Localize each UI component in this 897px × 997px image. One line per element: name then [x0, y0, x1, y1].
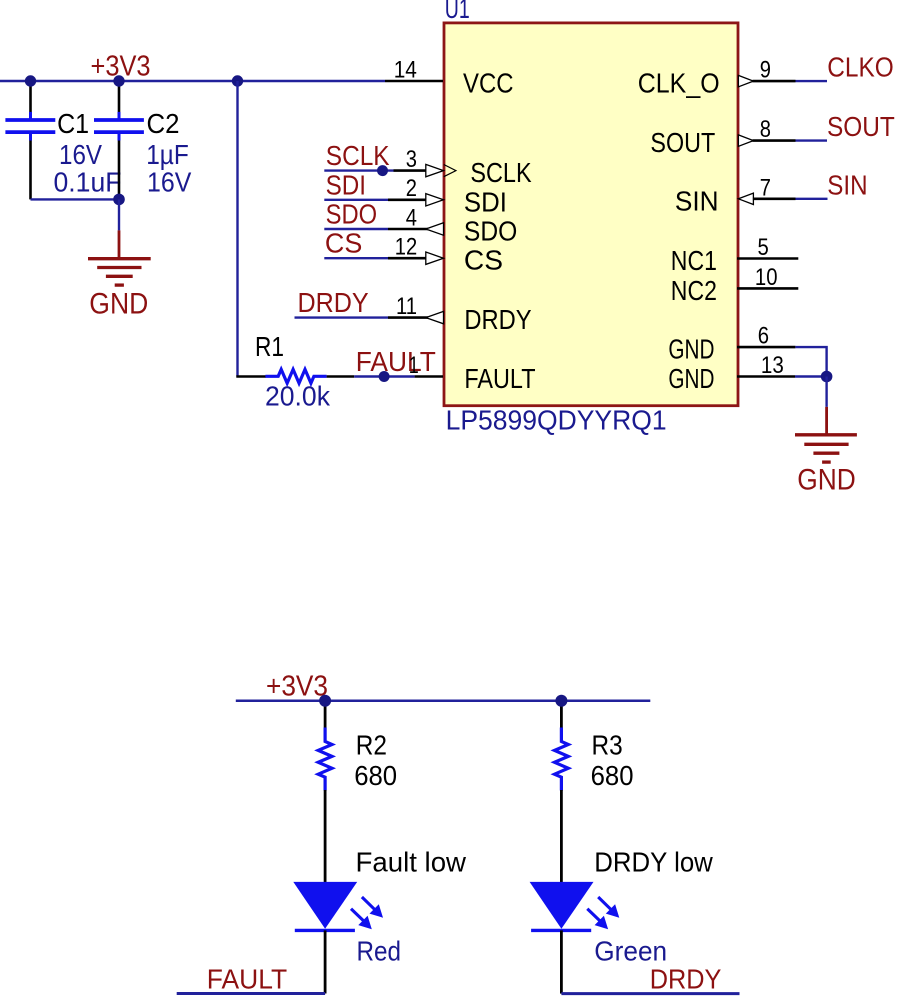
wire GND 13 to junction: [795, 375, 827, 377]
wire +3V3 branch down to R1: [236, 81, 238, 377]
pin GND 13 stub: [737, 375, 795, 378]
pin number 10: [755, 264, 778, 291]
wire DRDY bottom rail: [561, 992, 739, 995]
svg-text:1µF: 1µF: [146, 139, 189, 170]
wire CLKO net: [796, 80, 828, 82]
pin VCC 14 stub: [385, 80, 443, 83]
label DRDY low: [594, 847, 713, 878]
pin number 11: [396, 293, 417, 320]
svg-text:11: 11: [396, 293, 417, 320]
wire SDI net: [324, 199, 388, 201]
value C2 16V: [147, 167, 192, 198]
pin SDI 2 stub: [388, 194, 444, 206]
pin CS 12 stub: [388, 252, 444, 264]
svg-text:GND: GND: [668, 334, 714, 365]
net label FAULT bottom: [207, 963, 287, 994]
wire rail to R2: [324, 701, 327, 729]
designator C1: [57, 108, 89, 139]
svg-text:LP5899QDYYRQ1: LP5899QDYYRQ1: [446, 405, 667, 436]
svg-text:9: 9: [760, 57, 771, 84]
wire R1 left lead: [236, 375, 266, 378]
value LP5899QDYYRQ1: [446, 405, 667, 436]
pin name SDO: [464, 216, 517, 247]
svg-text:SOUT: SOUT: [827, 111, 895, 142]
designator R1: [255, 331, 284, 362]
svg-text:SOUT: SOUT: [650, 127, 715, 158]
svg-text:13: 13: [761, 352, 784, 379]
svg-text:CS: CS: [325, 228, 362, 259]
designator C2: [147, 108, 180, 139]
value R3 680: [591, 760, 634, 791]
pin name SOUT: [650, 127, 715, 158]
svg-text:SDO: SDO: [326, 199, 378, 230]
wire to GND left: [118, 199, 120, 230]
wire FAULT bottom rail: [177, 992, 325, 995]
svg-text:5: 5: [758, 234, 769, 261]
pin name GND 6: [668, 334, 714, 365]
wire R3 to LED2: [560, 790, 563, 883]
LED D1: [293, 882, 383, 931]
svg-text:12: 12: [395, 234, 417, 261]
svg-text:VCC: VCC: [463, 68, 514, 99]
designator U1: [445, 0, 470, 24]
pin number 5: [758, 234, 769, 261]
wire +3V3 bottom rail: [236, 699, 651, 702]
pin number 12: [395, 234, 417, 261]
net label DRDY bottom: [650, 964, 722, 995]
clock symbol pin 3: [444, 165, 456, 177]
svg-text:8: 8: [760, 116, 771, 143]
pin number 4: [406, 204, 417, 231]
node junction dot R3: [555, 695, 567, 707]
value 20.0k: [265, 381, 331, 412]
net label FAULT: [356, 346, 436, 377]
pin name GND 13: [668, 363, 714, 394]
svg-text:0.1uF: 0.1uF: [54, 167, 122, 198]
svg-text:680: 680: [591, 760, 634, 791]
pin number 14: [394, 57, 417, 84]
svg-text:C2: C2: [147, 108, 180, 139]
pin name NC1: [671, 245, 717, 276]
svg-text:10: 10: [755, 264, 778, 291]
pin DRDY 11 stub: [388, 311, 444, 323]
power port +3V3 top: [91, 51, 151, 83]
pin NC1 5 stub: [737, 257, 798, 260]
wire GND 6 to corner: [795, 347, 826, 376]
ground label GND left: [89, 288, 148, 321]
label Fault low: [356, 847, 467, 878]
net label SOUT: [827, 111, 895, 142]
svg-text:Fault low: Fault low: [356, 847, 467, 878]
resistor R3: [555, 728, 569, 791]
node junction dot D: [113, 194, 125, 206]
net label SDO: [326, 199, 378, 230]
pin name NC2: [671, 275, 717, 306]
svg-text:Green: Green: [594, 936, 667, 967]
resistor R1: [265, 369, 326, 383]
node junction dot GND: [821, 371, 833, 383]
svg-text:SCLK: SCLK: [470, 157, 531, 188]
wire SOUT net: [796, 139, 828, 141]
svg-text:DRDY low: DRDY low: [594, 847, 713, 878]
wire junction to GND symbol right: [825, 377, 827, 407]
IC U1 LP5899QDYYRQ1 body: [444, 23, 738, 406]
svg-text:SDI: SDI: [464, 186, 507, 217]
svg-text:DRDY: DRDY: [464, 304, 531, 335]
net label SDI: [326, 169, 366, 200]
svg-text:3: 3: [406, 146, 417, 173]
wire rail to R3: [560, 701, 563, 729]
wire LED2 to DRDY rail: [560, 930, 563, 993]
pin SOUT 8 stub: [738, 135, 795, 146]
designator R3: [592, 729, 623, 760]
pin NC2 10 stub: [737, 287, 798, 290]
svg-text:SDO: SDO: [464, 216, 517, 247]
pin number 9: [760, 57, 771, 84]
resistor R2: [318, 728, 332, 791]
designator R2: [356, 729, 387, 760]
wire R1 to FAULT net: [327, 375, 355, 378]
svg-text:GND: GND: [89, 288, 148, 321]
value C1 16V: [59, 139, 102, 170]
node junction dot FAULT: [379, 371, 390, 382]
svg-text:DRDY: DRDY: [298, 287, 369, 318]
net label SIN: [827, 169, 867, 200]
ground symbol left: [88, 230, 151, 285]
node junction dot SCLK: [377, 165, 388, 176]
node junction dot B: [113, 75, 124, 86]
pin name SIN: [675, 185, 719, 216]
svg-text:1: 1: [409, 352, 419, 379]
svg-text:FAULT: FAULT: [464, 363, 535, 394]
svg-text:C1: C1: [57, 108, 89, 139]
svg-text:20.0k: 20.0k: [265, 381, 331, 412]
svg-text:+3V3: +3V3: [266, 671, 328, 703]
pin number 3: [406, 146, 417, 173]
svg-text:NC1: NC1: [671, 245, 717, 276]
svg-text:680: 680: [354, 760, 397, 791]
pin name DRDY: [464, 304, 531, 335]
wire DRDY net: [295, 316, 389, 318]
svg-text:SIN: SIN: [675, 185, 719, 216]
svg-text:4: 4: [406, 204, 417, 231]
pin name SCLK: [470, 157, 531, 188]
svg-text:CLKO: CLKO: [827, 52, 894, 83]
wire R2 to LED1: [324, 790, 327, 883]
node junction dot A: [25, 75, 36, 86]
svg-text:16V: 16V: [59, 139, 102, 170]
net label CLKO: [827, 52, 894, 83]
power port +3V3 bottom: [266, 671, 328, 703]
svg-text:NC2: NC2: [671, 275, 717, 306]
svg-text:DRDY: DRDY: [650, 964, 722, 995]
pin name SDI: [464, 186, 507, 217]
svg-text:U1: U1: [445, 0, 470, 24]
net label DRDY: [298, 287, 369, 318]
label Green: [594, 936, 667, 967]
pin number 7: [760, 174, 771, 201]
svg-text:Red: Red: [357, 936, 402, 967]
pin name CS: [464, 245, 503, 276]
pin name FAULT: [464, 363, 535, 394]
wire SIN net: [796, 198, 828, 200]
svg-text:14: 14: [394, 57, 417, 84]
svg-text:CLK_O: CLK_O: [638, 68, 720, 99]
value R2 680: [354, 760, 397, 791]
net label CS: [325, 228, 362, 259]
svg-text:GND: GND: [797, 464, 856, 497]
svg-text:7: 7: [760, 174, 771, 201]
svg-text:SDI: SDI: [326, 169, 366, 200]
svg-text:16V: 16V: [147, 167, 192, 198]
pin name CLK_O: [638, 68, 720, 99]
pin FAULT 1 stub: [415, 375, 443, 378]
value C1 0.1uF: [54, 167, 122, 198]
svg-text:CS: CS: [464, 245, 503, 276]
net label SCLK: [326, 140, 390, 171]
svg-text:GND: GND: [668, 363, 714, 394]
pin CLK_O 9 stub: [738, 75, 795, 86]
svg-text:R2: R2: [356, 729, 387, 760]
pin number 1: [409, 352, 419, 379]
capacitor C1: [5, 81, 55, 199]
wire LED1 to FAULT rail: [324, 930, 327, 993]
svg-text:SCLK: SCLK: [326, 140, 390, 171]
wire FAULT net segment: [354, 375, 414, 377]
svg-text:SIN: SIN: [827, 169, 867, 200]
LED D2: [530, 882, 620, 931]
pin SCLK 3 stub: [394, 164, 444, 176]
svg-text:R1: R1: [255, 331, 284, 362]
node junction dot C: [232, 75, 243, 86]
wire SCLK net: [324, 169, 393, 171]
wire CS net: [324, 257, 388, 259]
svg-text:R3: R3: [592, 729, 623, 760]
pin GND 6 stub: [737, 346, 795, 349]
ground label GND right: [797, 464, 856, 497]
pin SIN 7 stub: [738, 193, 795, 204]
pin number 8: [760, 116, 771, 143]
pin number 13: [761, 352, 784, 379]
label Red: [357, 936, 402, 967]
node junction dot R2: [319, 695, 331, 707]
pin name VCC: [463, 68, 514, 99]
pin number 6: [758, 323, 769, 350]
pin number 2: [406, 175, 417, 202]
pin SDO 4 stub: [388, 223, 444, 235]
wire +3V3 top rail: [0, 80, 385, 82]
svg-text:2: 2: [406, 175, 417, 202]
svg-text:FAULT: FAULT: [356, 346, 436, 377]
capacitor C2: [94, 81, 144, 199]
value C2 1uF: [146, 139, 189, 170]
wire cap bottom rail: [31, 198, 120, 200]
ground symbol right: [795, 407, 857, 462]
svg-text:6: 6: [758, 323, 769, 350]
wire SDO net: [324, 228, 388, 230]
svg-text:FAULT: FAULT: [207, 963, 287, 994]
